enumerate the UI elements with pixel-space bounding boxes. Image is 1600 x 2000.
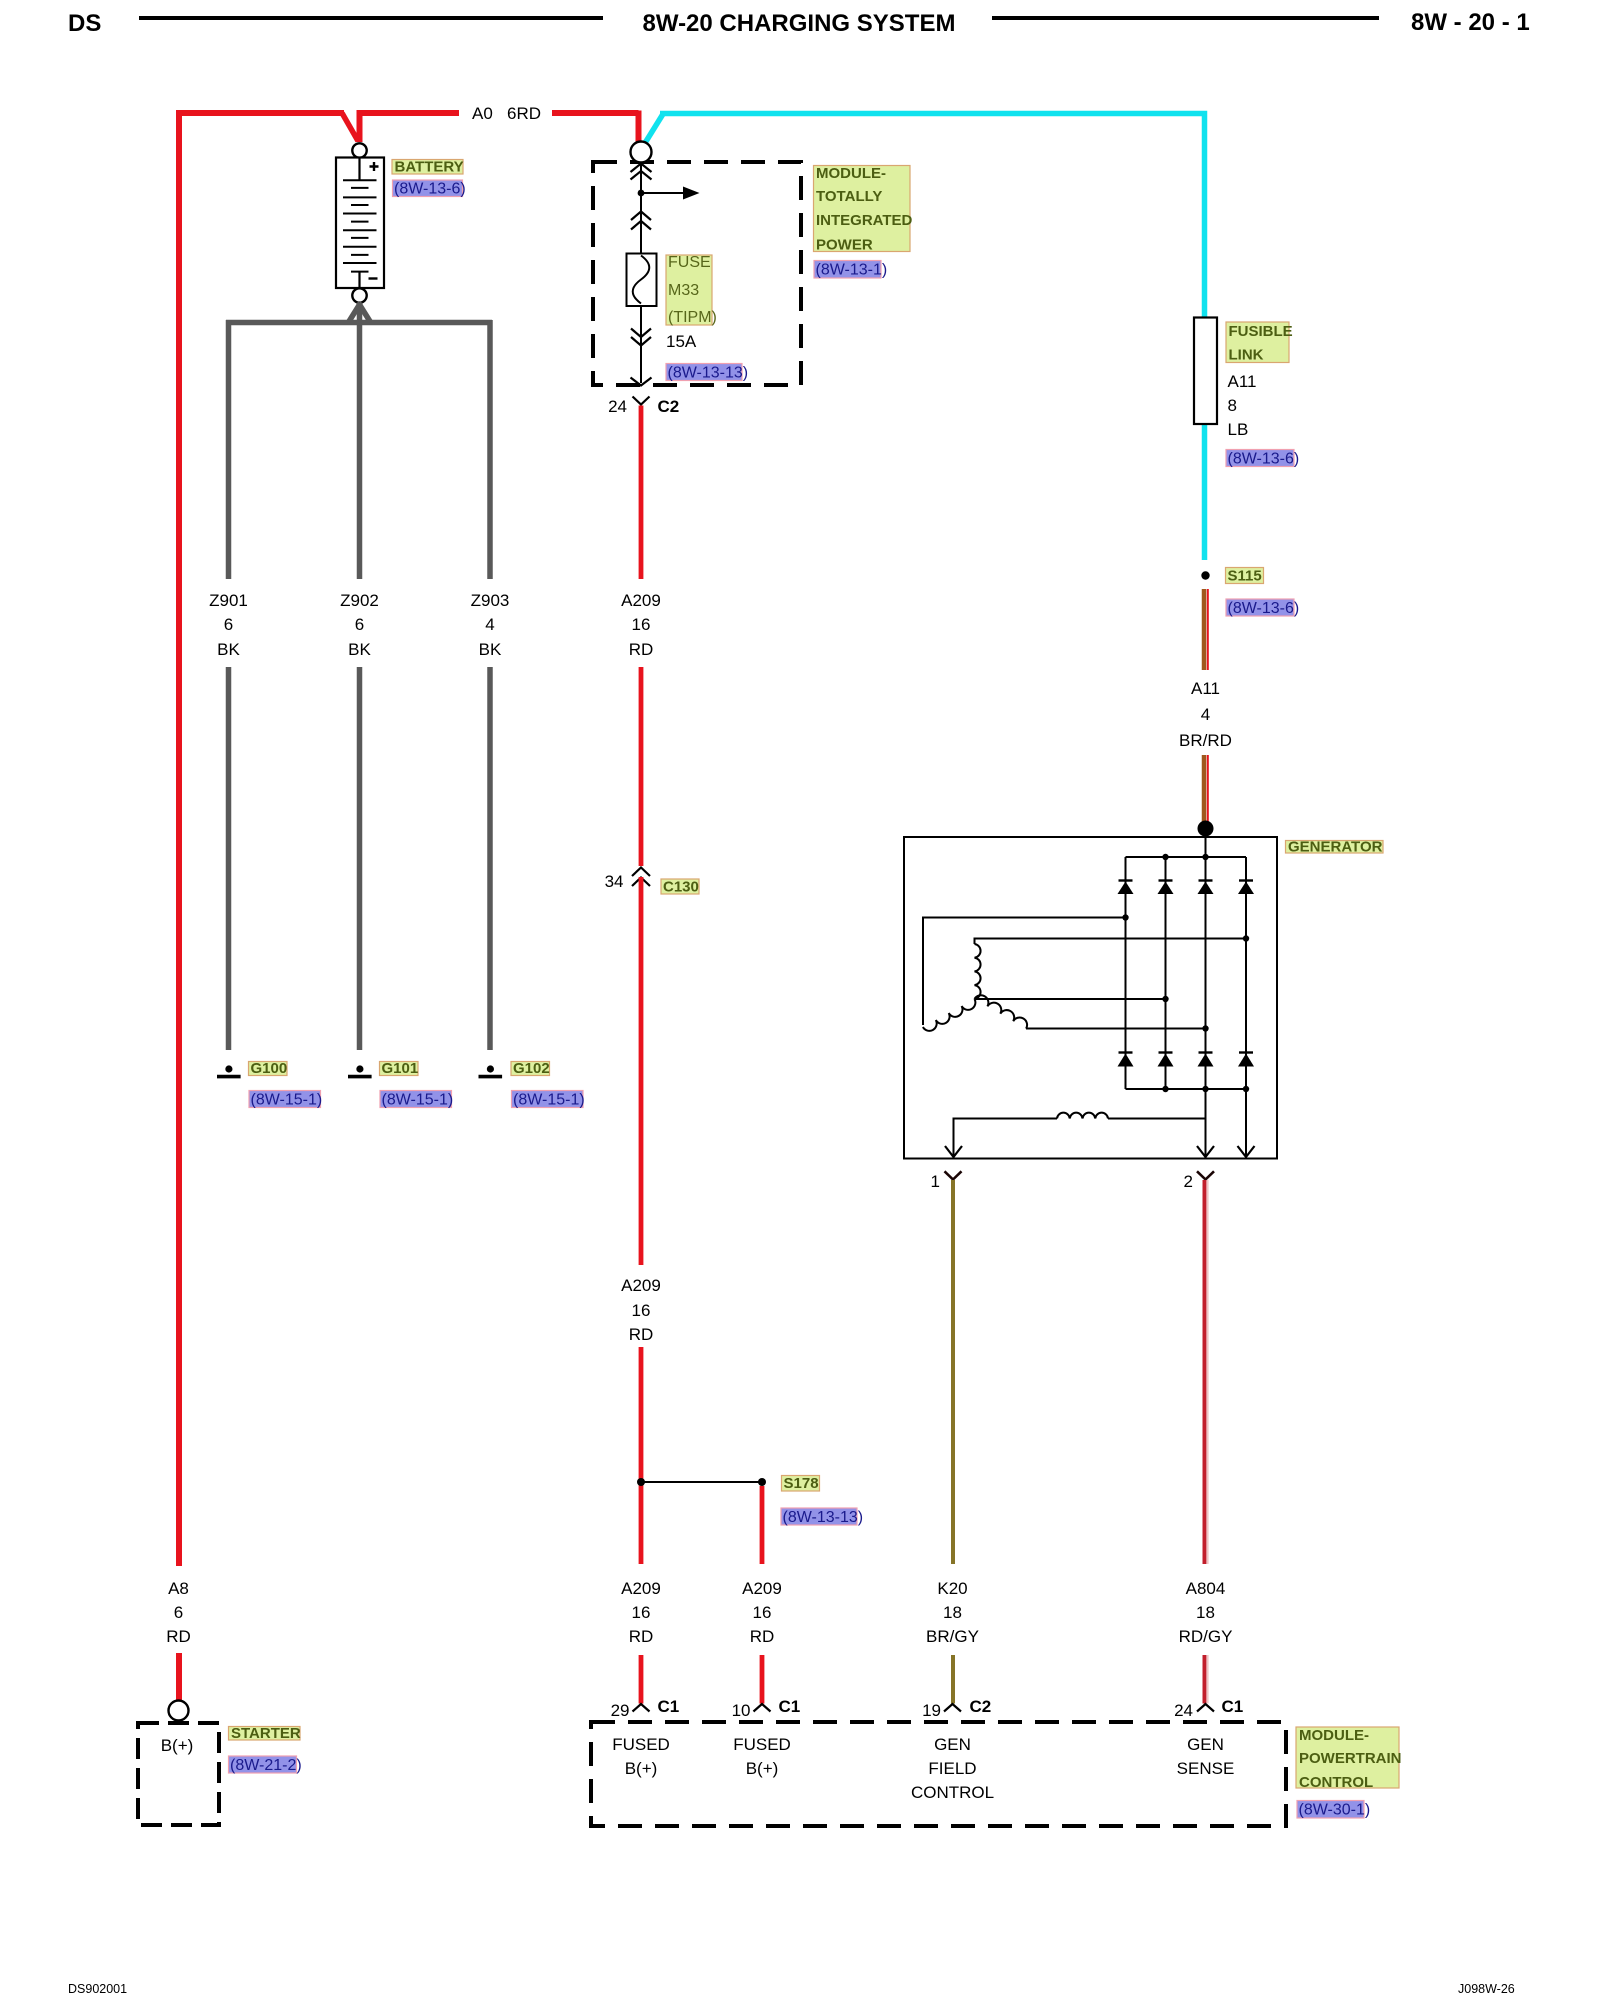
- module PCM ref (8W-30-1): [1297, 1801, 1364, 1819]
- svg-text:GEN: GEN: [1187, 1735, 1224, 1754]
- svg-text:LB: LB: [1228, 420, 1249, 439]
- header title block: [68, 9, 1530, 37]
- svg-text:M33: M33: [668, 282, 699, 299]
- svg-text:18: 18: [1196, 1603, 1215, 1622]
- svg-text:Z902: Z902: [340, 591, 379, 610]
- diode D8: [1238, 1053, 1254, 1067]
- svg-text:6: 6: [355, 615, 364, 634]
- svg-text:29: 29: [611, 1701, 630, 1720]
- diode D5: [1118, 1053, 1134, 1067]
- svg-text:C130: C130: [663, 879, 699, 896]
- fuse M33 15A: [627, 254, 657, 307]
- svg-text:FUSE: FUSE: [668, 254, 711, 271]
- svg-text:S178: S178: [784, 1475, 819, 1492]
- ground G101: [348, 1065, 372, 1076]
- stator winding coil right: [975, 995, 1028, 1028]
- svg-text:Z903: Z903: [471, 591, 510, 610]
- wire A11 8 LB cyan (TIPM to fusible link): [645, 114, 1205, 561]
- svg-text:FIELD: FIELD: [928, 1759, 976, 1778]
- TIPM chevrons below fuse: [631, 329, 651, 346]
- svg-text:RD: RD: [629, 640, 654, 659]
- battery BATTERY (8W-13-6): [336, 158, 384, 289]
- svg-text:A804: A804: [1186, 1579, 1226, 1598]
- wire A209 16 RD branch to PCM pin 10: [760, 1486, 765, 1564]
- battery ref (8W-13-6): [393, 180, 463, 197]
- wire A0 6RD red bus (battery to TIPM): [179, 111, 639, 1567]
- svg-text:(8W-30-1): (8W-30-1): [1299, 1802, 1371, 1819]
- svg-text:10: 10: [732, 1701, 751, 1720]
- TIPM entry terminal circle: [631, 142, 652, 163]
- svg-text:STARTER: STARTER: [231, 1725, 301, 1742]
- svg-text:16: 16: [753, 1603, 772, 1622]
- stator phase lead 1: [923, 918, 1126, 1026]
- svg-text:B(+): B(+): [746, 1759, 779, 1778]
- rectifier top bus: [1126, 856, 1247, 858]
- svg-text:CONTROL: CONTROL: [1299, 1774, 1373, 1791]
- rectifier columns: [1126, 857, 1247, 1089]
- stator winding coil vertical: [975, 944, 981, 999]
- svg-text:DS: DS: [68, 10, 101, 37]
- svg-text:6RD: 6RD: [507, 104, 541, 123]
- TIPM ref (8W-13-13): [666, 364, 742, 381]
- svg-text:S115: S115: [1228, 568, 1262, 585]
- svg-text:LINK: LINK: [1229, 347, 1264, 364]
- svg-text:8W - 20 - 1: 8W - 20 - 1: [1411, 9, 1530, 36]
- ground G100: [217, 1065, 241, 1076]
- ground wire split from battery negative: [226, 303, 492, 580]
- svg-text:24: 24: [608, 397, 627, 416]
- svg-text:BK: BK: [479, 640, 502, 659]
- svg-text:34: 34: [605, 872, 624, 891]
- svg-text:RD: RD: [629, 1627, 654, 1646]
- TIPM internal junction and bus arrow: [638, 190, 645, 197]
- svg-text:6: 6: [224, 615, 233, 634]
- svg-text:A8: A8: [168, 1579, 189, 1598]
- svg-text:(8W-13-1): (8W-13-1): [816, 262, 888, 279]
- diode D4: [1238, 881, 1254, 895]
- starter ref (8W-21-2): [229, 1756, 297, 1773]
- starter label STARTER: [229, 1727, 301, 1741]
- svg-text:C2: C2: [658, 397, 680, 416]
- svg-text:(8W-13-13): (8W-13-13): [783, 1509, 864, 1526]
- svg-text:B(+): B(+): [161, 1736, 194, 1755]
- svg-text:16: 16: [632, 615, 651, 634]
- svg-text:SENSE: SENSE: [1177, 1759, 1235, 1778]
- svg-text:(TIPM): (TIPM): [668, 309, 717, 326]
- svg-text:MODULE-: MODULE-: [1299, 1727, 1369, 1744]
- svg-text:MODULE-: MODULE-: [816, 165, 886, 182]
- svg-text:TOTALLY: TOTALLY: [816, 188, 882, 205]
- svg-text:6: 6: [174, 1603, 183, 1622]
- svg-text:J098W-26: J098W-26: [1458, 1982, 1515, 1996]
- battery label BATTERY: [392, 160, 463, 175]
- generator B+ internal lead: [1205, 828, 1207, 857]
- svg-text:(8W-13-13): (8W-13-13): [668, 365, 749, 382]
- svg-text:(8W-15-1): (8W-15-1): [382, 1092, 454, 1109]
- svg-text:C1: C1: [1222, 1697, 1244, 1716]
- svg-text:(8W-21-2): (8W-21-2): [230, 1757, 302, 1774]
- svg-text:RD/GY: RD/GY: [1179, 1627, 1233, 1646]
- svg-text:A11: A11: [1228, 372, 1257, 391]
- svg-text:POWER: POWER: [816, 237, 873, 254]
- module TIPM ref (8W-13-1): [814, 261, 881, 279]
- ground G102: [479, 1065, 503, 1076]
- wire A209 16 RD upper segment: [639, 406, 644, 580]
- splice S178: [641, 1481, 762, 1483]
- stator phase lead 2: [975, 939, 1247, 945]
- svg-text:B(+): B(+): [625, 1759, 658, 1778]
- diode D3: [1198, 881, 1214, 895]
- svg-text:GEN: GEN: [934, 1735, 971, 1754]
- module powertrain control dashed box: [591, 1722, 1286, 1826]
- generator internal pin arrows: [945, 1146, 1255, 1157]
- rectifier bottom bus: [1126, 1088, 1247, 1090]
- svg-text:A209: A209: [621, 591, 661, 610]
- diode D7: [1198, 1053, 1214, 1067]
- svg-text:BK: BK: [217, 640, 240, 659]
- generator GENERATOR box: [904, 837, 1277, 1159]
- wire A209 16 RD middle segment: [639, 877, 644, 1265]
- svg-text:19: 19: [922, 1701, 941, 1720]
- wire A804 18 RD/GY: [1205, 1180, 1208, 1564]
- generator B+ junction node: [1198, 821, 1214, 837]
- svg-text:FUSIBLE: FUSIBLE: [1229, 323, 1293, 340]
- svg-text:A209: A209: [742, 1579, 782, 1598]
- svg-text:(8W-13-6): (8W-13-6): [1228, 600, 1300, 617]
- svg-text:FUSED: FUSED: [733, 1735, 791, 1754]
- svg-text:4: 4: [1201, 705, 1210, 724]
- svg-text:INTEGRATED: INTEGRATED: [816, 212, 913, 229]
- svg-text:18: 18: [943, 1603, 962, 1622]
- svg-text:C1: C1: [779, 1697, 801, 1716]
- fuse label FUSE M33 (TIPM): [666, 255, 712, 325]
- TIPM entry double chevron: [631, 164, 652, 180]
- battery positive terminal circle: [352, 143, 366, 157]
- stator phase lead 4: [1026, 1028, 1206, 1030]
- svg-text:A0: A0: [472, 104, 493, 123]
- svg-text:A209: A209: [621, 1276, 661, 1295]
- svg-text:4: 4: [485, 615, 494, 634]
- svg-text:C1: C1: [658, 1697, 680, 1716]
- svg-text:A209: A209: [621, 1579, 661, 1598]
- module TIPM label MODULE-TOTALLY INTEGRATED POWER: [814, 166, 911, 252]
- svg-text:GENERATOR: GENERATOR: [1288, 839, 1383, 856]
- svg-text:RD: RD: [166, 1627, 191, 1646]
- svg-text:1: 1: [931, 1172, 940, 1191]
- svg-text:CONTROL: CONTROL: [911, 1783, 994, 1802]
- svg-text:16: 16: [632, 1301, 651, 1320]
- svg-text:K20: K20: [937, 1579, 967, 1598]
- svg-text:2: 2: [1184, 1172, 1193, 1191]
- svg-text:POWERTRAIN: POWERTRAIN: [1299, 1750, 1402, 1767]
- starter terminal circle: [169, 1701, 189, 1721]
- diode D1: [1118, 881, 1134, 895]
- svg-text:RD: RD: [629, 1325, 654, 1344]
- svg-text:G101: G101: [382, 1060, 419, 1077]
- svg-text:C2: C2: [970, 1697, 992, 1716]
- svg-text:16: 16: [632, 1603, 651, 1622]
- svg-text:FUSED: FUSED: [612, 1735, 670, 1754]
- TIPM exit arrow: [631, 378, 652, 386]
- svg-text:(8W-15-1): (8W-15-1): [513, 1092, 585, 1109]
- svg-text:DS902001: DS902001: [68, 1982, 127, 1996]
- svg-text:G102: G102: [513, 1060, 550, 1077]
- svg-text:G100: G100: [251, 1060, 288, 1077]
- starter STARTER (8W-21-2) dashed box: [138, 1723, 219, 1825]
- module PCM label MODULE-POWERTRAIN CONTROL: [1296, 1727, 1399, 1788]
- svg-text:A11: A11: [1191, 679, 1220, 698]
- fusible link A11 8 LB: [1194, 318, 1217, 425]
- battery negative terminal circle: [352, 288, 366, 302]
- svg-text:15A: 15A: [666, 332, 697, 351]
- wire A11 4 BR/RD: [1204, 589, 1208, 670]
- svg-text:BK: BK: [348, 640, 371, 659]
- TIPM stacked chevrons to fuse: [631, 212, 651, 230]
- stator phase lead 3: [975, 998, 1166, 1000]
- svg-text:Z901: Z901: [209, 591, 248, 610]
- svg-text:8: 8: [1228, 396, 1237, 415]
- svg-text:8W-20 CHARGING SYSTEM: 8W-20 CHARGING SYSTEM: [643, 10, 956, 37]
- wire K20 18 BR/GY: [951, 1180, 955, 1564]
- svg-text:BR/RD: BR/RD: [1179, 731, 1232, 750]
- diode D2: [1158, 881, 1174, 895]
- svg-text:(8W-15-1): (8W-15-1): [251, 1092, 323, 1109]
- field winding and leads: [954, 1119, 1058, 1158]
- splice S115: [1201, 571, 1209, 579]
- svg-text:24: 24: [1174, 1701, 1193, 1720]
- svg-text:BATTERY: BATTERY: [395, 159, 464, 176]
- svg-text:BR/GY: BR/GY: [926, 1627, 979, 1646]
- svg-text:RD: RD: [750, 1627, 775, 1646]
- stator winding coil left: [923, 999, 975, 1031]
- module totally integrated power dashed box: [593, 162, 801, 385]
- svg-text:(8W-13-6): (8W-13-6): [394, 181, 466, 198]
- diode D6: [1158, 1053, 1174, 1067]
- TIPM internal feed wire: [640, 162, 642, 383]
- svg-text:(8W-13-6): (8W-13-6): [1228, 451, 1300, 468]
